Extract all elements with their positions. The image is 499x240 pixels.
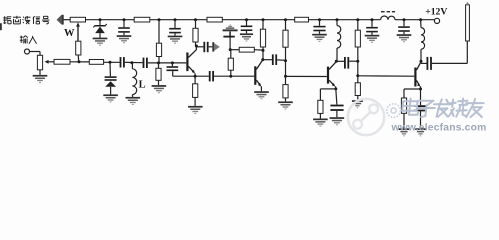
capacitor C6 (base-emitter bypass) — [167, 63, 179, 76]
wire R11 to Q2 output node — [285, 47, 287, 61]
antenna — [466, 2, 470, 41]
wire node A down to Q2 collector — [262, 50, 264, 59]
resistor R9 (Q1 emitter) — [193, 84, 198, 98]
wire Q3 base rail — [286, 75, 327, 77]
wire Q3 collector to C13 — [336, 60, 344, 62]
capacitor C7 (output tap of Q1) — [203, 42, 208, 52]
node Q2 output junction — [284, 59, 287, 62]
+12V supply terminal — [434, 18, 439, 23]
watermark elecfans disc logo — [348, 99, 384, 135]
inductor L2 (series RF choke on top rail) — [381, 16, 395, 20]
transistor Q4 — [414, 62, 421, 89]
resistor R12 (upper bias Q2) — [239, 47, 254, 52]
capacitor C8 — [313, 20, 325, 34]
capacitor C9 (series, emitter rail) — [209, 71, 214, 81]
resistor R10 (series, top rail) — [295, 17, 309, 22]
capacitor C10 (series) — [272, 54, 277, 65]
wire Q1 collector to C7 — [196, 46, 203, 48]
capacitor C16 (Q4 emitter bypass) — [414, 105, 427, 128]
watermark round icon — [387, 104, 401, 118]
resistor R8 — [260, 29, 265, 47]
label sawtooth-signal-input line 2 (输入) — [20, 36, 37, 44]
node at varactor VD1 — [109, 61, 112, 64]
input flag arrow (left-pointing) with bar — [57, 15, 64, 25]
ground below Q2 emitter — [254, 91, 269, 99]
core dashes above L2 — [381, 11, 395, 12]
node feed of R13 — [356, 18, 359, 21]
capacitor C4 (series, mid rail) — [143, 58, 148, 68]
capacitor C5 — [241, 20, 253, 34]
inverted ground symbol above node F — [223, 24, 238, 49]
resistor R6 (series, top rail) — [207, 17, 222, 22]
wire R4 to mid rail — [158, 57, 160, 63]
ground below R16 — [313, 119, 328, 127]
wire W wiper down to R2b — [77, 25, 79, 42]
node at choke L3 — [336, 18, 339, 21]
resistor R13 — [355, 30, 360, 47]
node feed of R8 — [262, 18, 265, 21]
capacitor C3 (series, mid rail) — [120, 57, 125, 67]
wire top rail from R10 to L2 — [309, 19, 381, 21]
wire C15 to antenna — [432, 41, 467, 63]
ground below C12 — [397, 34, 412, 42]
wire C13 to Q4 bias node — [349, 60, 358, 62]
wire R8 to node A — [262, 47, 264, 50]
watermark url text — [391, 123, 487, 134]
wire node E to R14 — [230, 70, 232, 76]
wire C4 to Q1 base — [148, 62, 187, 64]
label +12V — [425, 6, 447, 17]
label sawtooth-signal-input line 1 (锯齿波信号) — [0, 16, 50, 30]
node at capacitor C12 — [403, 18, 406, 21]
capacitor C14 (Q3 emitter bypass) — [330, 105, 343, 118]
wire top rail from R3 to R6 — [150, 19, 207, 21]
wire R13 to Q3 output node — [357, 47, 359, 61]
output flag arrow (right-pointing) with bar — [212, 42, 220, 51]
wire R7 to ground — [158, 63, 160, 85]
svg-text:L: L — [139, 79, 146, 90]
node Q1 emitter — [194, 75, 197, 78]
wire R1 to R2 — [70, 61, 89, 63]
ground below L1 — [126, 97, 141, 105]
node at capacitor C11 — [371, 18, 374, 21]
resistor R2b (from W wiper) — [76, 41, 81, 55]
wire Q3 base node to R15 — [285, 76, 287, 84]
wire Q4 base rail — [358, 75, 415, 77]
input terminal circle — [25, 49, 30, 54]
resistor R14 (lower bias Q2) — [228, 58, 233, 70]
capacitor C15 (antenna coupling) — [427, 57, 432, 70]
resistor R3 (series, top rail) — [134, 17, 150, 22]
zener diode D1 — [93, 20, 107, 38]
wire Q1 emitter to R9 — [194, 76, 196, 84]
ground below D1 — [93, 38, 108, 46]
wire R14 up to node F — [230, 50, 232, 59]
node Q3 emitter — [334, 87, 337, 90]
transistor Q2 — [254, 60, 262, 91]
label W — [64, 28, 75, 39]
wire R18 to ground — [403, 113, 405, 128]
wire down to R4 — [158, 20, 160, 44]
capacitor C11 — [366, 20, 378, 35]
capacitor C2 — [169, 20, 181, 36]
node at capacitor C8 — [318, 18, 321, 21]
label L — [139, 79, 146, 90]
inductor L1 — [132, 63, 136, 97]
node at capacitor C1 — [123, 18, 126, 21]
node Q4 emitter — [419, 88, 422, 91]
wire down to Q4 base rail — [357, 61, 359, 75]
wire down to R13 — [357, 20, 359, 31]
node E junction (bias of Q2) — [229, 75, 232, 78]
ground below C11 — [365, 35, 380, 43]
ground below R15 — [278, 101, 293, 109]
varactor diode VD1 — [105, 62, 117, 94]
node at capacitor C5 — [245, 18, 248, 21]
node Q4 bias junction — [356, 60, 359, 63]
ground below C14 — [330, 117, 345, 125]
node Q1 collector — [195, 45, 198, 48]
wire C7 to output flag — [209, 46, 213, 48]
resistor R7 — [156, 68, 161, 80]
node A junction — [262, 49, 265, 52]
ground below C8 — [312, 34, 327, 42]
wire R12 to node A — [254, 49, 263, 51]
potentiometer W body — [70, 17, 85, 22]
transistor Q1 — [186, 46, 196, 76]
node F junction — [229, 48, 232, 51]
potentiometer RP1 body — [37, 55, 42, 70]
svg-text:+12V: +12V — [425, 6, 447, 17]
capacitor C13 (series) — [344, 57, 349, 69]
wire R5 to Q1 collector node — [195, 42, 197, 46]
ground below R17 — [352, 100, 363, 108]
resistor R5 (Q1 collector load) — [193, 28, 198, 42]
resistor R18 (Q4 emitter) — [401, 98, 406, 113]
node feed of R11 — [284, 18, 287, 21]
wire down to R8 — [262, 20, 264, 30]
node at inductor L1 — [130, 61, 133, 64]
wire R2b to node B — [77, 55, 79, 62]
ground below RP1 — [33, 75, 48, 83]
resistor R4 — [156, 43, 161, 56]
node Q3 collector — [335, 60, 338, 63]
wire R9 to ground — [194, 97, 196, 106]
node B junction (R1/R2/R2b) — [78, 60, 81, 63]
resistor R2 — [89, 60, 103, 65]
resistor R16 (Q3 emitter) — [318, 100, 323, 113]
ground below C1 — [117, 35, 132, 43]
wire Q3 emitter to C14 — [336, 89, 337, 105]
node Q4 collector — [420, 60, 423, 63]
wire R2 to series cap C3 — [104, 61, 120, 63]
node feed of R4 — [158, 18, 161, 21]
wire junction to R17 — [357, 76, 359, 83]
wire Q2 collector to C10 — [263, 59, 272, 61]
wire C9 to Q2 base — [214, 75, 254, 77]
inductor L3 (collector choke of Q3) — [337, 20, 341, 62]
wire down to R5 — [195, 20, 197, 29]
ground below VD1 — [103, 94, 118, 102]
wire emitter rail of Q1 — [173, 75, 209, 77]
wire down to R11 — [285, 20, 287, 31]
node Q3 base junction — [284, 75, 287, 78]
wire R16 to ground — [319, 113, 321, 118]
wire input terminal to RP1 — [30, 52, 41, 56]
node at capacitor C2 — [174, 18, 177, 21]
transistor Q3 — [327, 62, 336, 89]
wire R17 to ground — [357, 96, 359, 101]
wire top rail from W to R3 — [86, 19, 135, 21]
wire Q4 collector to C15 — [421, 61, 427, 63]
resistor R15 (Q3 base to ground) — [283, 85, 288, 98]
node at choke L4 — [419, 18, 422, 21]
node D junction (C6 tap) — [171, 61, 174, 64]
inductor L4 (collector choke of Q4) — [421, 20, 425, 62]
watermark brand characters 电子发烧友 — [401, 99, 484, 118]
svg-text:W: W — [64, 28, 75, 39]
wire R15 to ground — [285, 98, 287, 102]
node feed of R5 — [194, 18, 197, 21]
resistor R17 (base of Q4 to ground) — [355, 83, 360, 96]
wire top rail from L2 to +12V terminal — [395, 19, 434, 21]
wire C3 to C4 — [125, 61, 143, 63]
node at zener D1 — [99, 18, 102, 21]
wire Q4 emitter rail left — [404, 89, 421, 98]
wire top rail segment from input flag to potentiometer W — [63, 19, 70, 21]
wire node F to R12 — [230, 49, 239, 51]
ground below R9 — [188, 106, 203, 114]
wire Q3 emitter rail left — [320, 89, 335, 100]
wire Q4 emitter to C16 — [420, 89, 422, 105]
ground below C2 — [168, 36, 183, 44]
capacitor C1 — [118, 20, 130, 36]
wire RP1 to ground — [39, 70, 41, 75]
svg-text:www.elecfans.com: www.elecfans.com — [391, 123, 487, 134]
ground below R18 — [399, 128, 410, 136]
resistor R11 — [283, 30, 288, 47]
potentiometer W wiper arrow — [76, 22, 80, 41]
RP1 wiper arrow — [45, 60, 54, 64]
node Q4 base rail junction — [356, 74, 359, 77]
wire down to Q3 base node — [285, 61, 287, 77]
ground below C5 — [240, 33, 253, 41]
node C junction (R4/R7) — [157, 61, 160, 64]
ground below R7 — [152, 85, 167, 93]
node Q2 collector — [261, 58, 264, 61]
capacitor C12 — [398, 20, 410, 35]
wire C10 to Q2 output node — [277, 59, 285, 61]
resistor R1 — [54, 59, 70, 64]
ground below C16 — [415, 128, 426, 136]
wire top rail from R6 to R10 — [222, 19, 294, 21]
